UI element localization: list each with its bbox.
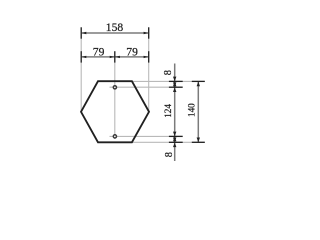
- svg-text:8: 8: [164, 152, 175, 157]
- svg-text:158: 158: [106, 21, 124, 34]
- svg-text:124: 124: [163, 104, 173, 118]
- svg-text:8: 8: [163, 70, 174, 75]
- svg-text:79: 79: [126, 45, 138, 58]
- svg-text:140: 140: [186, 103, 196, 117]
- svg-text:79: 79: [93, 45, 105, 58]
